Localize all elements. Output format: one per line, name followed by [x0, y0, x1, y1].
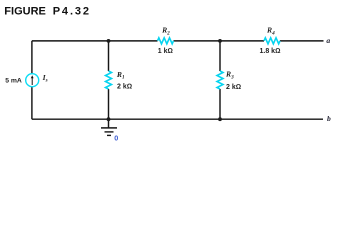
svg-text:P4.32: P4.32 — [53, 6, 91, 18]
svg-text:a: a — [326, 36, 330, 45]
svg-text:b: b — [327, 114, 331, 123]
svg-text:FIGURE: FIGURE — [4, 6, 46, 18]
svg-text:1 kΩ: 1 kΩ — [158, 48, 173, 55]
svg-text:5 mA: 5 mA — [5, 78, 22, 85]
svg-text:2 kΩ: 2 kΩ — [226, 84, 241, 91]
svg-text:1.8 kΩ: 1.8 kΩ — [260, 48, 281, 55]
svg-text:0: 0 — [114, 133, 118, 141]
svg-text:2 kΩ: 2 kΩ — [117, 83, 132, 90]
